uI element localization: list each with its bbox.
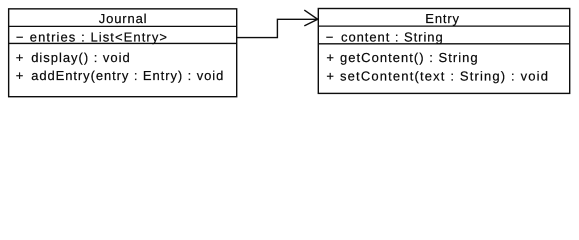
svg-text:getContent() : String: getContent() : String (340, 50, 479, 65)
svg-text:+: + (16, 68, 24, 83)
svg-text:content : String: content : String (341, 29, 444, 44)
svg-text:−: − (326, 29, 334, 44)
svg-text:Journal: Journal (99, 11, 148, 26)
svg-text:+: + (326, 69, 334, 84)
svg-text:setContent(text : String) : vo: setContent(text : String) : void (340, 69, 549, 84)
svg-text:+: + (326, 50, 334, 65)
svg-text:addEntry(entry : Entry) : void: addEntry(entry : Entry) : void (31, 68, 224, 83)
svg-text:Entry: Entry (425, 11, 460, 26)
svg-text:entries : List<Entry>: entries : List<Entry> (30, 29, 168, 44)
svg-text:+: + (16, 50, 24, 65)
svg-text:display() : void: display() : void (31, 50, 131, 65)
svg-text:−: − (16, 29, 24, 44)
